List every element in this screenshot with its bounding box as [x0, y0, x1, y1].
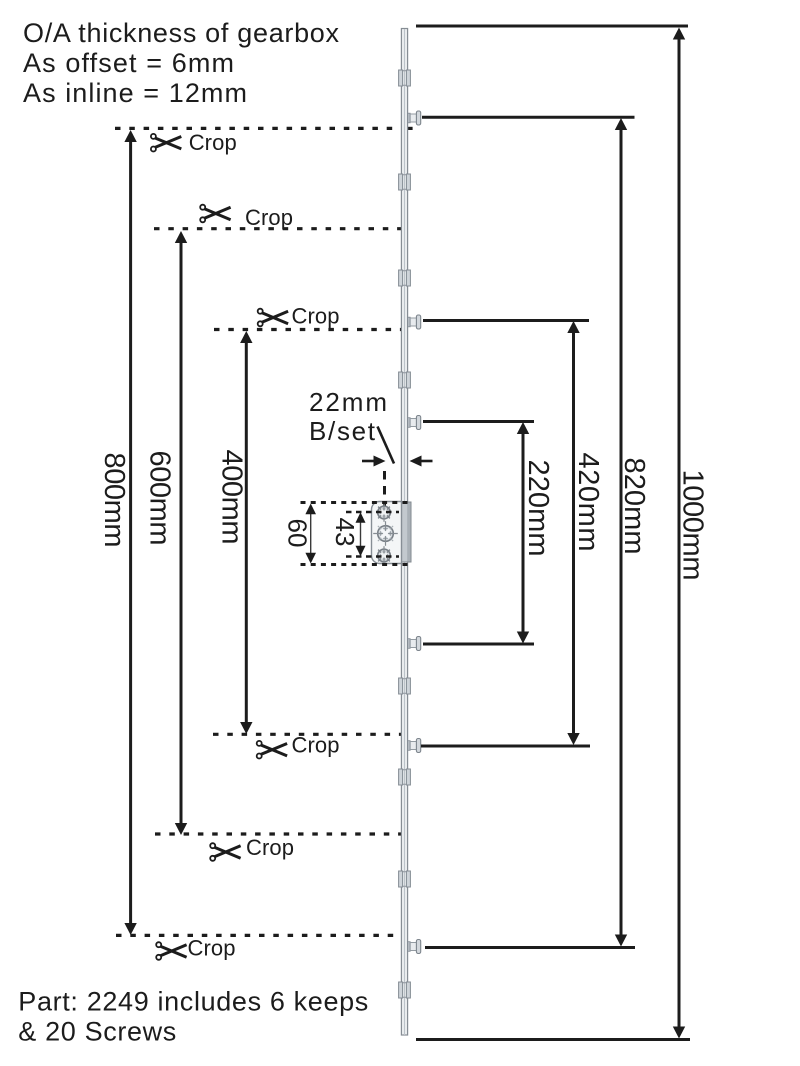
crop line 4 — [213, 733, 406, 736]
gearbox body — [399, 502, 411, 562]
svg-text:Crop: Crop — [246, 835, 294, 860]
tick 1000mm bottom — [416, 1038, 690, 1041]
svg-text:Crop: Crop — [245, 205, 293, 230]
B/set leader line — [378, 427, 395, 464]
mushroom cam 1 — [408, 111, 421, 125]
60 dotted line bottom — [301, 563, 412, 566]
svg-text:43: 43 — [330, 518, 360, 547]
svg-text:Part: 2249 includes 6 keeps: Part: 2249 includes 6 keeps — [18, 987, 368, 1017]
dimension line 600mm — [175, 231, 187, 835]
gearbox screw bottom — [378, 546, 391, 565]
mushroom cam 2 — [408, 315, 421, 329]
dimension line 1000mm — [673, 28, 685, 1039]
keep sleeve 6 — [399, 769, 411, 785]
crop line 5 — [155, 832, 401, 835]
svg-text:820mm: 820mm — [618, 458, 650, 555]
svg-text:420mm: 420mm — [572, 453, 604, 552]
scissors icon 4 — [257, 741, 287, 759]
dimension 60 double arrow — [305, 504, 316, 564]
svg-text:As inline = 12mm: As inline = 12mm — [23, 78, 247, 108]
60 dotted line top — [301, 501, 412, 504]
dimension line 220mm — [517, 422, 529, 644]
mushroom cam 6 — [408, 940, 421, 954]
dimension line 400mm — [240, 331, 252, 734]
dimension line 800mm — [124, 130, 136, 935]
keep sleeve 7 — [399, 871, 411, 887]
svg-text:800mm: 800mm — [98, 453, 130, 548]
svg-text:Crop: Crop — [292, 732, 340, 757]
scissors icon 3 — [258, 309, 288, 327]
backset arrow right — [410, 456, 433, 467]
svg-text:As offset = 6mm: As offset = 6mm — [23, 48, 234, 78]
scissors icon 1 — [151, 134, 181, 152]
crop line 1 dash right of strip — [408, 127, 413, 130]
tick 820mm top — [422, 116, 635, 119]
scissors icon 5 — [210, 843, 240, 861]
lock faceplate strip — [401, 29, 407, 1036]
crop line 6 — [116, 934, 402, 937]
svg-text:60: 60 — [283, 519, 313, 548]
scissors icon 2 — [200, 205, 230, 223]
tick 420mm top — [423, 319, 589, 322]
svg-text:B/set: B/set — [309, 416, 376, 446]
keep sleeve 4 — [399, 372, 411, 388]
dimension line 820mm — [615, 118, 627, 947]
crop line 2 — [154, 227, 401, 230]
crop line 1 — [115, 127, 412, 130]
dimension line 420mm — [567, 321, 579, 745]
keep sleeve 2 — [399, 174, 411, 190]
svg-text:& 20 Screws: & 20 Screws — [18, 1017, 176, 1047]
backset arrow left — [362, 456, 386, 467]
keep sleeve 8 — [399, 982, 411, 998]
gearbox screw top — [378, 503, 391, 522]
43 dashed line bottom — [346, 555, 399, 558]
keep sleeve 3 — [399, 270, 411, 286]
svg-text:220mm: 220mm — [522, 460, 554, 557]
svg-text:Crop: Crop — [292, 304, 340, 329]
svg-text:Crop: Crop — [189, 130, 237, 155]
svg-text:1000mm: 1000mm — [677, 470, 709, 581]
svg-text:400mm: 400mm — [216, 450, 248, 545]
43 dashed line top — [346, 511, 399, 514]
mushroom cam 5 — [408, 739, 421, 753]
keep sleeve 5 — [399, 678, 411, 694]
dimension 43 double arrow — [356, 512, 366, 556]
backset dashed centre line — [383, 471, 386, 513]
svg-text:22mm: 22mm — [309, 387, 387, 417]
tick 220mm top — [423, 420, 534, 423]
crop line 3 — [214, 328, 402, 331]
svg-text:O/A thickness of gearbox: O/A thickness of gearbox — [23, 18, 340, 48]
gearbox screw middle — [373, 521, 398, 546]
mushroom cam 4 — [408, 637, 421, 651]
keep sleeve 1 — [399, 70, 411, 86]
mushroom cam 3 — [408, 416, 421, 430]
tick 1000mm top — [416, 25, 688, 28]
tick 820mm bottom — [425, 946, 635, 949]
tick 220mm bottom — [423, 643, 534, 646]
gearbox faceplate — [372, 502, 402, 564]
svg-text:Crop: Crop — [188, 936, 236, 961]
scissors icon 6 — [156, 942, 186, 960]
svg-text:600mm: 600mm — [144, 451, 176, 546]
tick 420mm bottom — [421, 745, 590, 748]
